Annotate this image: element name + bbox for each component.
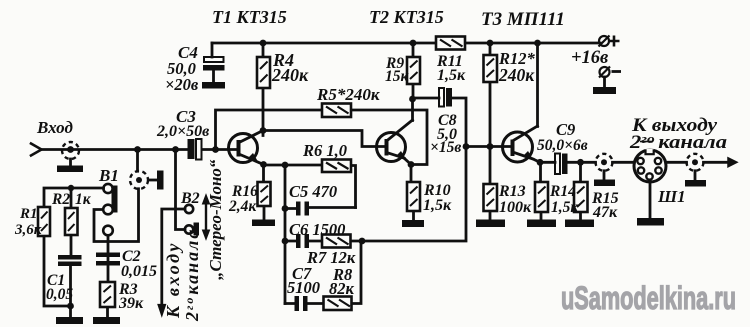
svg-text:„Стерео-Моно“: „Стерео-Моно“ (206, 159, 225, 280)
svg-text:2гоканала: 2гоканала (182, 228, 202, 322)
svg-text:Ш1: Ш1 (657, 187, 686, 206)
svg-text:0,015: 0,015 (121, 263, 157, 280)
svg-text:+16в: +16в (571, 48, 608, 68)
svg-text:Т1 КТ315: Т1 КТ315 (212, 7, 287, 27)
svg-text:R5*240к: R5*240к (316, 85, 380, 104)
svg-text:240к: 240к (271, 65, 309, 85)
svg-text:R1: R1 (19, 206, 38, 222)
svg-text:×20в: ×20в (165, 75, 199, 94)
svg-text:Т3 МП111: Т3 МП111 (481, 9, 565, 30)
svg-text:15к: 15к (385, 68, 410, 85)
svg-text:×15в: ×15в (430, 139, 461, 156)
svg-text:R2: R2 (51, 191, 70, 208)
svg-text:1к: 1к (75, 191, 92, 208)
svg-text:0,05: 0,05 (46, 286, 73, 303)
svg-text:uSamodelkina.ru: uSamodelkina.ru (561, 280, 736, 316)
svg-text:2,4к: 2,4к (228, 198, 257, 215)
svg-text:47к: 47к (592, 204, 618, 221)
svg-text:3,6к: 3,6к (14, 222, 42, 238)
svg-text:С5 470: С5 470 (289, 182, 337, 201)
svg-text:39к: 39к (118, 295, 144, 312)
svg-text:R6 1,0: R6 1,0 (302, 141, 347, 160)
svg-text:С6 1500: С6 1500 (289, 220, 345, 239)
svg-text:Т2 КТ315: Т2 КТ315 (369, 7, 444, 27)
svg-text:Вход: Вход (36, 118, 73, 137)
svg-text:1,5к: 1,5к (423, 197, 452, 214)
svg-text:R13: R13 (498, 183, 526, 200)
svg-text:5100: 5100 (287, 278, 320, 297)
svg-text:В1: В1 (98, 166, 119, 185)
svg-text:50,0×6в: 50,0×6в (537, 137, 588, 154)
svg-text:100к: 100к (499, 199, 532, 216)
svg-text:82к: 82к (329, 279, 355, 298)
svg-text:2,0×50в: 2,0×50в (156, 123, 209, 140)
svg-text:240к: 240к (498, 65, 535, 85)
svg-text:1,5к: 1,5к (551, 199, 579, 216)
svg-text:R14: R14 (549, 183, 576, 200)
svg-text:К входу: К входу (163, 241, 183, 319)
svg-text:В2: В2 (180, 190, 200, 207)
svg-text:1,5к: 1,5к (437, 67, 466, 84)
